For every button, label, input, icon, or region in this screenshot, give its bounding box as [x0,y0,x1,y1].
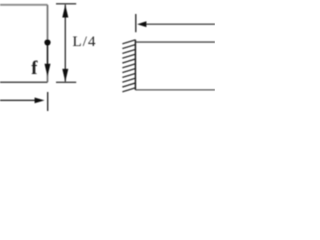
dimension top cap [56,3,76,5]
wall hatch 3 [122,49,135,53]
wall hatch 1 [122,40,135,44]
square bottom edge [0,81,48,83]
wall hatch 10 [122,83,135,87]
svg-text:f: f [31,59,38,79]
svg-text:L/4: L/4 [73,34,97,50]
bottom dimension tick [47,92,49,111]
bottom dimension arrowhead right [35,98,45,104]
dimension bottom cap [56,81,76,83]
right dimension tick [135,14,137,32]
square top edge [0,4,48,6]
beam top edge [135,41,215,43]
beam bottom edge [135,89,215,91]
dimension arrowhead down [62,69,68,82]
load point dot [44,39,50,45]
wall hatch 9 [122,78,135,82]
wall hatch 7 [122,69,135,73]
right dimension line [144,23,215,25]
wall hatch 5 [122,59,135,63]
force arrow shaft [47,44,49,65]
wall hatch 11 [122,88,135,92]
wall hatch 8 [122,73,135,77]
bottom dimension line [0,99,36,101]
right dimension arrowhead left [137,21,146,27]
wall hatch 2 [122,45,135,49]
wall hatch 6 [122,64,135,68]
force arrowhead [45,64,51,77]
square right edge [47,5,49,82]
dimension arrowhead up [62,5,68,18]
dimension line L/4 vertical [64,5,66,82]
wall face line [134,40,136,90]
wall hatch 4 [122,54,135,58]
